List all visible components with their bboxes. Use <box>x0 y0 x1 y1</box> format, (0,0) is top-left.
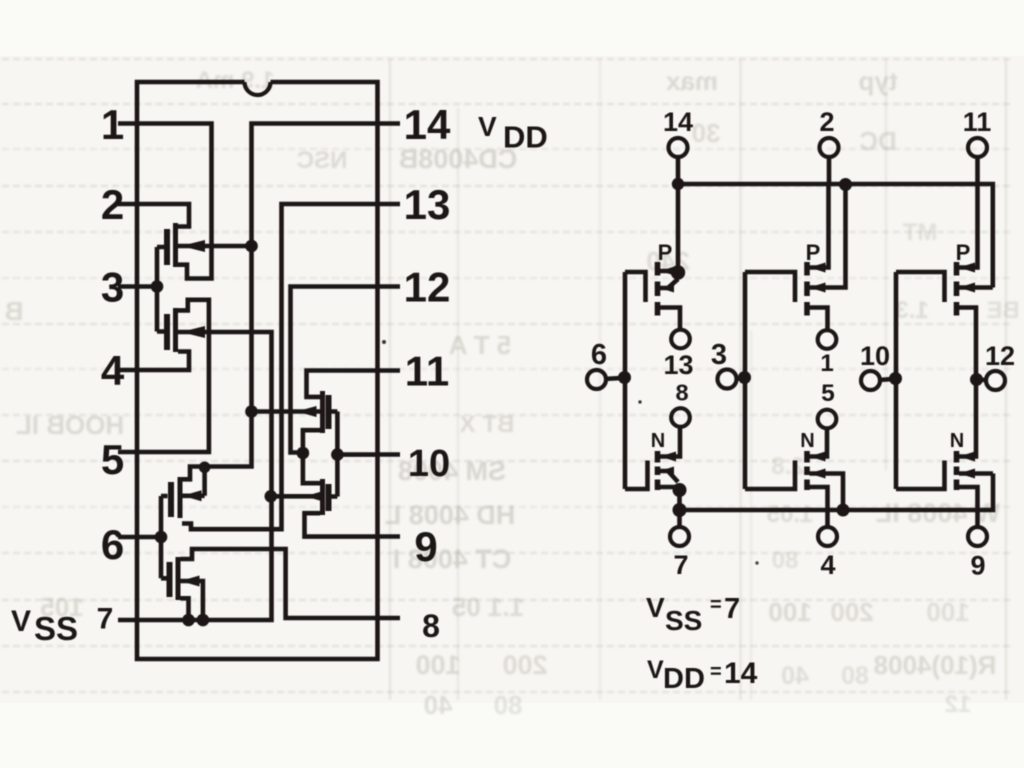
svg-text:DC: DC <box>859 126 897 156</box>
note VSS = 7 <box>646 592 740 636</box>
transistor P2 (pair B PMOS) <box>807 262 826 316</box>
svg-text:typ: typ <box>859 66 898 96</box>
note VDD = 14 <box>647 656 758 695</box>
node pin12 tap <box>970 373 983 386</box>
wire pin9 to Q6 source <box>305 513 378 536</box>
wire pin8 to N1 drain <box>658 427 681 457</box>
svg-text:30: 30 <box>692 118 721 148</box>
transistor P1 (pair A PMOS) <box>658 262 686 316</box>
svg-text:P: P <box>806 240 821 265</box>
svg-text:100: 100 <box>415 650 460 680</box>
node Q6 bulk junction <box>265 490 278 503</box>
node pin3 gate junction <box>151 280 164 293</box>
node Q5 bulk junction <box>245 405 258 418</box>
svg-text:5 T A: 5 T A <box>448 330 511 360</box>
wire pin12 stub <box>977 377 987 382</box>
svg-text:40: 40 <box>781 662 809 690</box>
wire N3 source to pin9 circle <box>957 487 978 527</box>
svg-text:V: V <box>478 111 497 142</box>
wire input 3 stub <box>735 375 745 380</box>
wire P2 drain to pin1 circle <box>807 308 828 330</box>
pin 14 stub <box>378 121 401 126</box>
wire P3 bulk arm <box>959 285 993 290</box>
svg-text:SS: SS <box>665 605 702 636</box>
node Q2 source junction <box>182 614 195 627</box>
node VSS rail bulk B <box>837 504 850 517</box>
transistor N3 (pair C NMOS) <box>957 451 976 490</box>
svg-text:6: 6 <box>101 521 124 568</box>
svg-text:BT X: BT X <box>460 411 515 438</box>
svg-text:DD: DD <box>663 663 705 695</box>
pin 5 terminal circle <box>818 410 837 429</box>
wire input 3 vertical <box>743 272 748 489</box>
svg-text:1.05: 1.05 <box>767 501 814 528</box>
wire pin1 to Q3 drain <box>137 124 212 279</box>
node Q1 source/bulk junction <box>199 462 211 474</box>
wire pin3 to gates of Q3/Q4 <box>137 247 165 332</box>
svg-text:2: 2 <box>101 181 124 228</box>
svg-text:N: N <box>800 430 814 452</box>
svg-text:8: 8 <box>675 380 688 406</box>
node input 3 junction <box>738 371 751 384</box>
svg-text:100: 100 <box>926 597 969 627</box>
svg-text:N: N <box>950 430 964 452</box>
svg-text:V: V <box>11 605 31 638</box>
wire Q3 bulk arm <box>178 244 252 249</box>
svg-text:CT 4008 I: CT 4008 I <box>393 544 512 574</box>
transistor P3 (pair C PMOS) <box>957 262 976 316</box>
svg-text:7: 7 <box>673 550 688 580</box>
pin 11 terminal circle <box>968 138 987 157</box>
svg-text:4: 4 <box>820 550 835 580</box>
pin 14 terminal circle <box>669 138 688 157</box>
svg-text:1: 1 <box>101 101 124 148</box>
svg-text:BE: BE <box>986 297 1019 324</box>
wire N3 bulk arm <box>959 471 993 476</box>
gate bracket N3 <box>896 461 945 490</box>
transistor N2 (pair B NMOS) <box>807 451 826 490</box>
gate bracket P3 <box>896 272 945 302</box>
pin 7 stub <box>118 618 137 623</box>
svg-text:80: 80 <box>841 662 869 690</box>
svg-text:4: 4 <box>101 347 125 394</box>
svg-text:MT: MT <box>902 219 937 246</box>
wire pin5 to Q4 drain <box>137 300 209 452</box>
wire inverter drains P3-N3 <box>957 308 977 457</box>
wire pin5 to N2 drain <box>807 429 827 457</box>
svg-text:V: V <box>647 656 664 684</box>
svg-text:1.3: 1.3 <box>895 297 928 324</box>
transistor Q3 (PMOS, gate 3, source 2, drain 1) <box>167 223 205 267</box>
VSS label (package) <box>11 605 78 647</box>
pin 2 stub <box>118 202 137 207</box>
svg-text:1: 1 <box>820 350 833 377</box>
pin 6 terminal circle <box>587 370 606 389</box>
pin 13 terminal circle <box>671 330 690 349</box>
svg-text:DD: DD <box>503 120 548 155</box>
pin 5 stub <box>118 450 137 455</box>
gate bracket P1 <box>625 272 646 302</box>
svg-text:CD4008B: CD4008B <box>399 144 518 174</box>
pin 2 terminal circle <box>820 138 839 157</box>
node input 10 junction <box>889 372 902 385</box>
wire inverter common drain Q5-Q6 <box>303 430 320 483</box>
node pin12 output junction <box>297 447 310 460</box>
svg-text:13: 13 <box>663 350 693 380</box>
pin 12 stub <box>378 284 401 289</box>
pin 3 stub <box>118 284 137 289</box>
svg-text:NSC: NSC <box>297 147 348 174</box>
wire pin2 through VDD rail to P2 source <box>807 157 829 268</box>
transistor Q4 (NMOS, gate 3, source 4, drain 5) <box>167 308 205 352</box>
pin 8 stub <box>378 616 401 621</box>
wire P2 bulk to VDD rail <box>810 185 846 288</box>
svg-text:14: 14 <box>663 107 693 137</box>
svg-text:2: 2 <box>819 107 834 137</box>
wire pin14 to VDD rail <box>676 157 681 184</box>
pin 4 terminal circle <box>818 527 837 546</box>
svg-text:1.1 05: 1.1 05 <box>452 592 524 622</box>
transistor N1 (pair A NMOS) <box>658 451 687 497</box>
svg-text:5: 5 <box>101 436 124 483</box>
wire pin10 to gates of Q5/Q6 <box>329 412 378 497</box>
svg-text:14: 14 <box>724 657 758 690</box>
svg-text:10: 10 <box>860 341 890 371</box>
wire pin2 to Q3 source <box>137 204 189 227</box>
wire pin11 to Q5 source <box>307 371 378 397</box>
node VDD rail bulk B <box>839 178 852 191</box>
wire Q5 bulk arm <box>252 409 321 414</box>
stray scan speck <box>755 561 758 564</box>
pin 12 terminal circle <box>986 371 1005 390</box>
svg-text:12: 12 <box>945 691 972 718</box>
svg-text:R(10)4008: R(10)4008 <box>874 650 997 680</box>
transistor Q5 (PMOS, gate 10, source 11, drain 12) <box>297 391 329 433</box>
svg-text:P: P <box>956 240 971 265</box>
wire Q1 source to VDD node <box>182 467 205 480</box>
pin 3 terminal circle <box>718 370 737 389</box>
gate bracket N1 <box>625 461 648 490</box>
wire Q2 source arm <box>181 598 189 620</box>
pin 9 stub <box>378 534 401 539</box>
svg-text:6: 6 <box>591 339 607 371</box>
wire pin12 to inverter output node <box>291 287 378 453</box>
svg-text:3: 3 <box>711 339 727 371</box>
svg-text:80: 80 <box>494 690 523 720</box>
svg-text:=: = <box>710 594 722 616</box>
wire Q6 bulk arm <box>271 494 320 499</box>
wire pin14 VDD bulk bus <box>205 124 378 496</box>
svg-text:200: 200 <box>830 597 873 627</box>
svg-text:8: 8 <box>422 608 440 644</box>
svg-text:80: 80 <box>772 547 799 574</box>
pin 11 stub <box>378 368 401 373</box>
VDD rail <box>678 184 993 288</box>
pin 10 stub <box>378 452 401 457</box>
svg-text:40: 40 <box>424 690 453 720</box>
VSS rail <box>680 474 994 511</box>
node VDD rail at pair A <box>672 178 684 190</box>
svg-text:N: N <box>651 430 665 452</box>
wire Q2 bulk arm <box>181 581 203 620</box>
node input 6 junction <box>618 371 631 384</box>
package notch <box>245 82 271 95</box>
svg-text:HD 4008 L: HD 4008 L <box>385 500 516 530</box>
wire input 10 stub <box>879 379 896 380</box>
wire input 6 vertical <box>623 272 628 489</box>
node VSS rail at pair A <box>673 503 687 517</box>
gate bracket N2 <box>745 461 795 490</box>
svg-text:10: 10 <box>408 443 450 485</box>
wire pin4 to Q4 source <box>137 352 189 371</box>
svg-text:7: 7 <box>97 603 114 636</box>
wire pin8 to Q2 drain <box>181 549 378 618</box>
wire pin13 to Q1 drain <box>182 204 378 529</box>
wire N2 source to pin4 circle <box>807 487 828 527</box>
wire P1 drain to pin13 circle <box>658 308 681 330</box>
pin 4 stub <box>118 368 137 373</box>
svg-text:100: 100 <box>768 597 811 627</box>
VDD label (package) <box>478 111 548 155</box>
wire input 10 vertical <box>894 272 899 489</box>
svg-text:9: 9 <box>414 523 437 570</box>
wire N2 bulk to VSS rail <box>810 474 844 511</box>
pin 1 stub <box>118 121 137 126</box>
stray scan speck <box>638 400 641 403</box>
svg-text:P: P <box>658 240 673 265</box>
wire pin11 through VDD rail to P3 source <box>957 157 978 268</box>
wire pin7 VSS bulk bus <box>137 332 272 620</box>
svg-text:max: max <box>665 66 718 96</box>
svg-text:5: 5 <box>821 380 835 407</box>
svg-text:3: 3 <box>101 264 124 311</box>
transistor Q6 (NMOS, gate 10, source 9, drain 12) <box>305 479 329 515</box>
pin 9 terminal circle <box>968 527 987 546</box>
svg-text:B: B <box>5 296 24 326</box>
pin 13 stub <box>378 202 401 207</box>
pin 7 terminal circle <box>670 527 689 546</box>
svg-text:12: 12 <box>985 341 1015 371</box>
svg-text:11: 11 <box>405 348 449 395</box>
svg-text:11: 11 <box>963 107 992 137</box>
pin 8 terminal circle <box>671 408 690 427</box>
node Q3 bulk junction <box>245 240 258 253</box>
svg-text:200: 200 <box>502 650 547 680</box>
wire pin6 to gates of Q1/Q2 <box>137 496 168 578</box>
IC package outline DIP-14 <box>137 82 378 659</box>
svg-text:W 4008 IL: W 4008 IL <box>876 498 1001 528</box>
wire N1 source to pin7 circle <box>658 487 680 527</box>
svg-text:7: 7 <box>724 593 740 625</box>
transistor Q1 (PMOS, gate 6, source 14, drain 13) <box>171 477 202 518</box>
svg-text:14: 14 <box>404 101 451 148</box>
svg-text:SS: SS <box>34 610 78 647</box>
wire input 6 stub <box>604 378 625 379</box>
pin 1 terminal circle <box>818 330 837 349</box>
svg-text:12: 12 <box>404 264 451 311</box>
svg-text:V: V <box>646 592 665 623</box>
svg-text:13: 13 <box>404 181 451 228</box>
node Q2 bulk junction <box>197 614 210 627</box>
svg-text:9: 9 <box>970 551 985 581</box>
svg-text:2.8: 2.8 <box>771 453 804 480</box>
node pin6 gate junction <box>155 531 168 544</box>
svg-text:=: = <box>710 661 722 683</box>
pin 10 terminal circle <box>861 371 880 390</box>
node pin10 gate junction <box>331 448 344 461</box>
stray scan speck <box>382 340 386 344</box>
gate bracket P2 <box>745 272 795 302</box>
wire VDD rail to P1 source <box>676 184 681 271</box>
pin 6 stub <box>118 535 137 540</box>
wire Q1 bulk arm <box>182 493 205 498</box>
transistor Q2 (NMOS, gate 6, source 7, drain 8) <box>170 557 200 600</box>
